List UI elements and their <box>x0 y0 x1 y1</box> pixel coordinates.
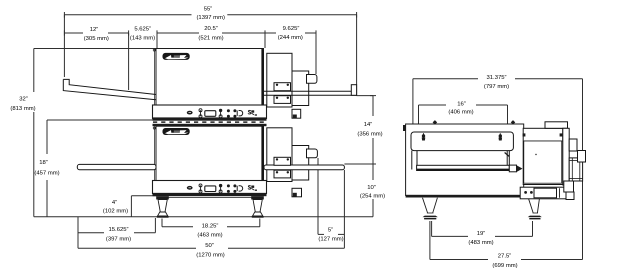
svg-text:55”: 55” <box>204 6 213 12</box>
svg-text:19”: 19” <box>477 231 486 237</box>
svg-text:(244 mm): (244 mm) <box>278 35 303 41</box>
svg-text:5”: 5” <box>328 228 333 234</box>
dim 16in <box>419 105 508 124</box>
bottom oven corner screw <box>153 127 155 129</box>
dim 15.625in <box>78 217 155 249</box>
svg-text:18.25”: 18.25” <box>202 224 219 230</box>
bottom oven left tray <box>77 164 156 169</box>
bottom right conveyor tray <box>264 165 344 170</box>
top oven control strip <box>153 105 267 119</box>
door handle dot <box>535 154 536 155</box>
svg-text:5.625”: 5.625” <box>134 27 151 33</box>
right box corner bolt right <box>560 133 563 136</box>
extension lines top <box>64 15 356 96</box>
right control box <box>523 128 563 184</box>
far right small attachment <box>578 151 586 163</box>
right box door top line <box>523 140 563 142</box>
bottom side foot box <box>566 192 574 200</box>
top bolt right <box>511 120 516 125</box>
narrow side panel <box>563 128 569 185</box>
svg-text:(305 mm): (305 mm) <box>84 36 109 42</box>
bottom right bracket plate 2 <box>274 170 291 178</box>
right control box top tab <box>545 122 568 129</box>
svg-text:(143 mm): (143 mm) <box>130 36 155 42</box>
top oven logo badge <box>163 53 190 60</box>
top oven control strip bottom thick band <box>153 117 267 120</box>
conveyor stub <box>509 165 516 172</box>
upper small side box <box>569 139 577 151</box>
top right bracket plate 2 <box>274 96 291 104</box>
tray panel end view <box>412 151 510 171</box>
svg-text:(254 mm): (254 mm) <box>360 194 385 200</box>
bottom right bracket plate 1 <box>274 157 291 165</box>
bottom oven logo badge <box>163 128 190 135</box>
side cabinet <box>569 158 582 181</box>
conveyor band <box>411 132 513 151</box>
band bolt left <box>422 133 426 140</box>
svg-text:(463 mm): (463 mm) <box>197 233 222 239</box>
dim 55in line <box>64 12 356 18</box>
top oven right thick edge <box>261 49 263 106</box>
top right lower small box <box>292 109 301 118</box>
svg-text:12”: 12” <box>90 27 99 33</box>
bottom side bracket <box>564 181 574 192</box>
svg-text:(483 mm): (483 mm) <box>468 240 493 246</box>
svg-text:(457 mm): (457 mm) <box>34 171 59 177</box>
top oven left inner edge line <box>153 49 155 106</box>
right box door <box>524 141 562 183</box>
dim 27.5in <box>430 221 583 260</box>
dim 50in <box>78 247 344 249</box>
main box bottom thick <box>406 195 523 198</box>
bottom oven top thick band <box>153 124 267 126</box>
end view left leg <box>423 198 438 220</box>
left edge tab <box>403 125 406 131</box>
bottom right secondary box <box>292 146 309 181</box>
band bolt right <box>499 133 503 140</box>
main end-view box <box>406 124 524 196</box>
top right conveyor tray <box>264 85 357 96</box>
dim 32in <box>34 49 156 217</box>
svg-text:(1397 mm): (1397 mm) <box>196 15 225 21</box>
svg-text:(813 mm): (813 mm) <box>10 106 35 112</box>
svg-text:31.375”: 31.375” <box>487 75 507 81</box>
base line under ovens <box>159 197 261 199</box>
floor extension line <box>34 216 373 218</box>
dim row2 line <box>64 30 316 35</box>
top right drive box <box>267 53 292 107</box>
right box base strip <box>520 187 568 199</box>
svg-text:(102 mm): (102 mm) <box>103 209 128 215</box>
bottom right tab <box>307 149 318 158</box>
svg-text:16”: 16” <box>457 102 466 108</box>
svg-text:20.5”: 20.5” <box>204 26 217 32</box>
end view right leg <box>528 199 542 220</box>
top bolt left <box>433 120 438 125</box>
bottom oven control strip <box>153 181 267 194</box>
svg-text:15.625”: 15.625” <box>109 227 129 233</box>
bottom right lower small box <box>292 188 302 197</box>
svg-text:(521 mm): (521 mm) <box>198 36 223 42</box>
dim 18in <box>47 120 156 217</box>
svg-text:(797 mm): (797 mm) <box>484 84 509 90</box>
dim 31.375in <box>413 79 583 260</box>
svg-text:50”: 50” <box>205 243 214 249</box>
vent dashes between ovens <box>153 121 266 123</box>
svg-text:(1270 mm): (1270 mm) <box>196 253 225 259</box>
flow arrow <box>517 165 523 172</box>
svg-text:(406 mm): (406 mm) <box>448 110 473 116</box>
svg-text:(127 mm): (127 mm) <box>318 237 343 243</box>
bottom oven left inner edge line <box>153 126 155 180</box>
dim 14in / 10in vertical <box>344 96 376 217</box>
bottom right drive box <box>267 128 292 182</box>
bottom oven right thick edge <box>261 126 263 180</box>
dim 5in <box>318 158 344 248</box>
svg-text:(356 mm): (356 mm) <box>357 132 382 138</box>
svg-text:32”: 32” <box>19 97 28 103</box>
top right secondary box <box>292 71 309 106</box>
svg-text:(699 mm): (699 mm) <box>492 263 517 269</box>
svg-text:27.5”: 27.5” <box>498 254 511 260</box>
svg-text:4”: 4” <box>112 200 117 206</box>
top oven left tray (sloped) <box>63 79 156 99</box>
dim 4in <box>131 196 157 217</box>
top oven corner screw <box>153 49 155 51</box>
bottom oven control elements <box>187 184 257 193</box>
svg-text:18”: 18” <box>39 160 48 166</box>
right box corner bolt left <box>523 133 526 136</box>
bottom oven control strip bottom thick band <box>153 193 267 196</box>
front left leg <box>156 196 169 218</box>
svg-text:10”: 10” <box>367 185 376 191</box>
bottom oven body <box>156 126 264 180</box>
svg-text:9.625”: 9.625” <box>283 26 300 32</box>
top oven body <box>156 49 264 106</box>
svg-text:(397 mm): (397 mm) <box>106 236 131 242</box>
front right leg <box>251 196 264 218</box>
top right tab <box>307 75 317 84</box>
top right bracket plate 1 <box>274 83 291 91</box>
dim 19in <box>432 221 533 236</box>
top oven control elements <box>187 109 257 118</box>
dim 18.25in <box>162 219 260 227</box>
svg-text:14”: 14” <box>364 122 373 128</box>
